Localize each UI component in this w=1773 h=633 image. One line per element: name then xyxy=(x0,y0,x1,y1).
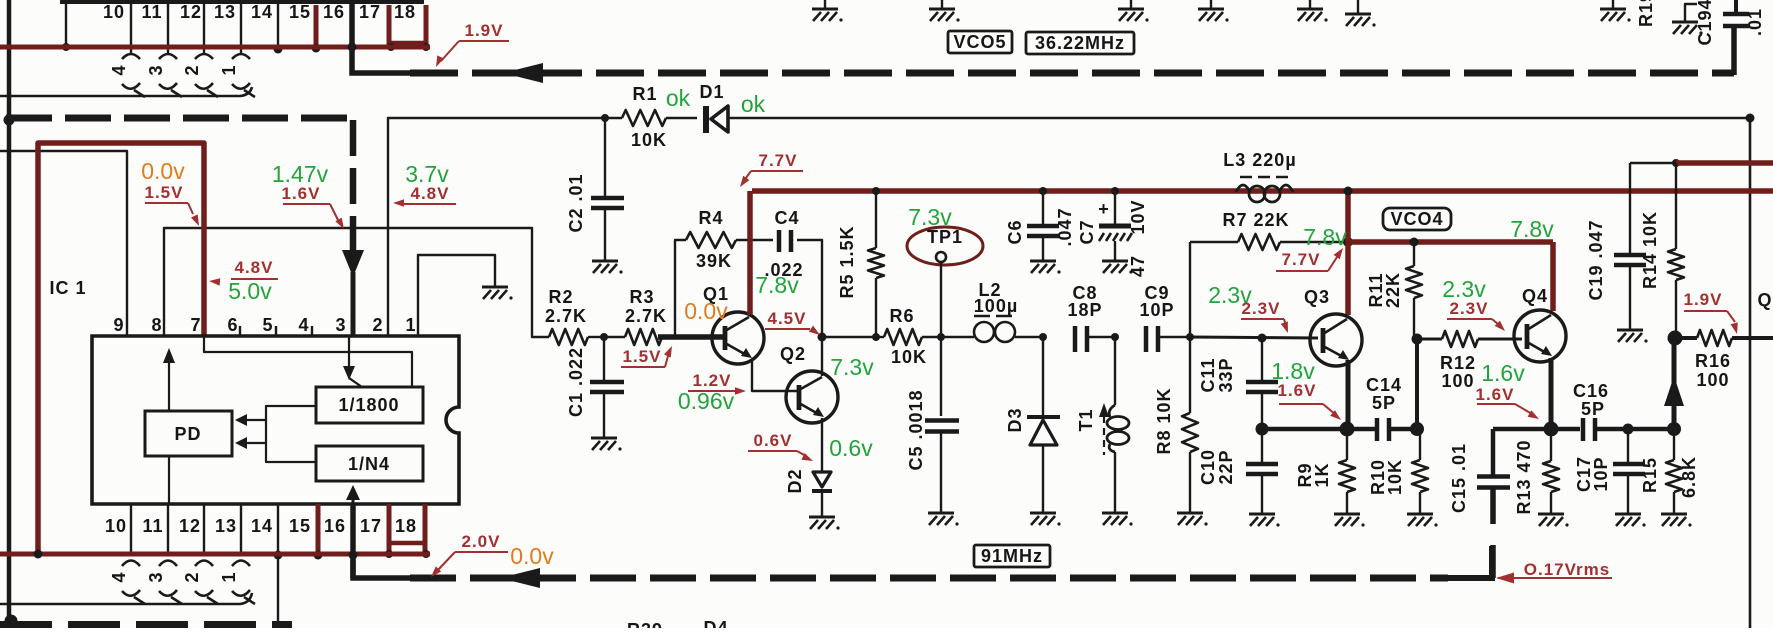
node Q3 emitter junction xyxy=(1340,422,1355,437)
node TP1 junction xyxy=(937,333,945,341)
svg-text:6.8K: 6.8K xyxy=(1679,456,1699,498)
svg-text:R12: R12 xyxy=(1440,353,1476,373)
svg-text:47: 47 xyxy=(1128,255,1148,277)
ground R13 xyxy=(1538,513,1564,516)
capacitor C11 xyxy=(1261,338,1263,381)
svg-text:1/N4: 1/N4 xyxy=(348,454,390,474)
svg-text:4.5V: 4.5V xyxy=(768,309,807,328)
svg-text:14: 14 xyxy=(251,516,273,536)
svg-text:Q4: Q4 xyxy=(1522,286,1548,306)
wire Q2 emitter xyxy=(821,418,823,472)
svg-text:R15: R15 xyxy=(1640,457,1660,493)
resistor R2 xyxy=(549,329,588,345)
bus riser pin3 with arrow xyxy=(350,120,357,250)
svg-text:VCO4: VCO4 xyxy=(1390,209,1443,229)
wire R15 node to R16 arrow xyxy=(1672,338,1677,429)
svg-text:5P: 5P xyxy=(1581,399,1605,419)
capacitor C2 xyxy=(604,118,606,197)
wire to Q3 base xyxy=(1190,337,1318,338)
node rail2 junction xyxy=(1343,237,1353,247)
node R12 junction xyxy=(1412,334,1423,345)
svg-text:7.7V: 7.7V xyxy=(759,151,798,170)
wire top pin17 highlighted xyxy=(387,5,392,47)
svg-text:1: 1 xyxy=(405,315,416,335)
transistor Q4 xyxy=(1514,310,1566,362)
svg-text:8: 8 xyxy=(151,315,162,335)
capacitor C1 xyxy=(603,337,605,381)
svg-text:11: 11 xyxy=(141,2,162,22)
svg-text:R8 10K: R8 10K xyxy=(1154,387,1174,454)
svg-text:39K: 39K xyxy=(696,251,732,271)
ground C10 xyxy=(1249,513,1275,516)
box PD xyxy=(145,411,232,456)
svg-text:10K: 10K xyxy=(1385,459,1405,495)
bus dashed bottom edge xyxy=(0,621,292,629)
capacitor C17 xyxy=(1627,429,1629,463)
net highlighted Q3 collector xyxy=(1345,191,1351,315)
resistor R9 xyxy=(1346,429,1348,460)
resistor R11 xyxy=(1413,242,1415,266)
wire PD up arrow xyxy=(168,352,170,411)
wire top pin18 highlighted xyxy=(424,5,429,47)
svg-text:R3: R3 xyxy=(629,287,654,307)
svg-text:R4: R4 xyxy=(698,208,723,228)
svg-text:7.3v: 7.3v xyxy=(908,204,952,230)
svg-text:PD: PD xyxy=(174,424,201,444)
svg-text:IC 1: IC 1 xyxy=(49,278,86,298)
svg-text:5.0v: 5.0v xyxy=(228,278,272,304)
svg-text:1.6V: 1.6V xyxy=(1278,381,1317,400)
wire bottom pin12 xyxy=(203,504,205,554)
wire bottom pin13 xyxy=(240,504,242,554)
connector hooks bottom xyxy=(122,561,140,567)
svg-text:0.6V: 0.6V xyxy=(754,431,793,450)
svg-text:7.8v: 7.8v xyxy=(755,272,799,298)
wire connector line bottom xyxy=(0,593,252,604)
svg-text:14: 14 xyxy=(251,2,273,22)
wire 1-1800 to PD xyxy=(266,406,316,462)
svg-text:0.0v: 0.0v xyxy=(684,298,728,324)
wire bottom pin17 highlighted xyxy=(387,504,392,554)
svg-text:R19: R19 xyxy=(1636,0,1656,27)
svg-text:13: 13 xyxy=(214,2,236,22)
diode D1 xyxy=(703,106,709,133)
svg-text:R1: R1 xyxy=(632,84,657,104)
capacitor C5 xyxy=(940,337,942,416)
svg-text:91MHz: 91MHz xyxy=(981,546,1043,566)
capacitor C9 xyxy=(1144,326,1149,352)
svg-text:R2: R2 xyxy=(548,287,573,307)
label box VCO5 xyxy=(948,31,1012,53)
capacitor C6 xyxy=(1042,191,1044,224)
svg-text:10K: 10K xyxy=(891,347,927,367)
wire bottom pin11 xyxy=(167,504,169,554)
net highlighted pin7 trace xyxy=(38,143,204,554)
wire pin3 internal arrow xyxy=(348,336,350,368)
ground top x825 xyxy=(824,0,826,8)
resistor R14 xyxy=(1675,163,1677,249)
resistor R16 xyxy=(1674,336,1697,340)
svg-text:Q2: Q2 xyxy=(780,344,806,364)
wire top pin15 highlighted xyxy=(314,5,319,47)
svg-text:C1 .022: C1 .022 xyxy=(566,347,586,417)
svg-text:1/1800: 1/1800 xyxy=(338,395,399,415)
svg-text:7.3v: 7.3v xyxy=(830,354,874,380)
wire Q4 emitter xyxy=(1549,358,1554,425)
capacitor C15 xyxy=(1477,474,1510,479)
ground top x1358 xyxy=(1357,0,1359,13)
svg-text:3: 3 xyxy=(335,315,346,335)
capacitor C14 xyxy=(1375,418,1380,441)
svg-text:16: 16 xyxy=(323,2,345,22)
svg-text:7.8v: 7.8v xyxy=(1510,216,1554,242)
svg-text:3: 3 xyxy=(146,571,166,582)
svg-text:17: 17 xyxy=(359,2,381,22)
svg-text:4: 4 xyxy=(109,571,129,582)
node D3 junction xyxy=(1039,333,1047,341)
svg-text:17: 17 xyxy=(360,516,382,536)
ground D2 xyxy=(809,516,835,519)
svg-text:1.6V: 1.6V xyxy=(282,184,321,203)
resistor R1 xyxy=(605,117,622,119)
svg-text:C4: C4 xyxy=(774,208,799,228)
capacitor C194 xyxy=(1734,0,1738,13)
ground R8 xyxy=(1177,512,1203,515)
svg-text:R7 22K: R7 22K xyxy=(1222,210,1289,230)
svg-text:4: 4 xyxy=(298,315,309,335)
wire Q1 base thick xyxy=(658,334,723,340)
ground C19 xyxy=(1617,329,1643,332)
svg-text:1K: 1K xyxy=(1312,462,1332,487)
inductor T1 xyxy=(1114,337,1116,405)
svg-text:5: 5 xyxy=(262,315,273,335)
svg-text:C19 .047: C19 .047 xyxy=(1586,219,1606,300)
testpoint TP1 xyxy=(907,227,983,265)
capacitor C7 electrolytic xyxy=(1114,191,1116,225)
transistor Q1 xyxy=(712,312,764,364)
svg-text:4: 4 xyxy=(109,64,129,75)
svg-text:2: 2 xyxy=(182,571,202,582)
svg-text:10V: 10V xyxy=(1128,199,1148,234)
svg-text:L3 220µ: L3 220µ xyxy=(1223,150,1296,170)
capacitor C10 xyxy=(1261,429,1263,463)
wire R4 branch xyxy=(675,240,686,337)
box 1/1800 xyxy=(316,387,423,423)
node C2 junction xyxy=(601,114,609,122)
bus arrow top xyxy=(503,63,543,83)
wire pin16 to bus corner xyxy=(352,0,412,73)
ground R15 xyxy=(1661,513,1687,516)
node C7 junction xyxy=(1111,187,1119,195)
wire top pin stub x66 xyxy=(65,0,67,47)
svg-text:0.6v: 0.6v xyxy=(829,435,873,461)
svg-text:0.0v: 0.0v xyxy=(510,543,554,569)
node R2 R3 junction xyxy=(600,333,608,341)
node R15 junction xyxy=(1667,422,1681,436)
svg-text:R6: R6 xyxy=(889,306,914,326)
node Q4 emitter junction xyxy=(1544,422,1559,437)
svg-text:D2: D2 xyxy=(785,468,805,493)
resistor R13 xyxy=(1550,429,1552,461)
ground C5 xyxy=(928,512,954,515)
svg-text:1.9V: 1.9V xyxy=(465,21,504,40)
svg-text:C11: C11 xyxy=(1198,357,1218,392)
svg-text:10P: 10P xyxy=(1139,300,1174,320)
wire R7 riser xyxy=(1189,242,1191,337)
svg-text:.01: .01 xyxy=(1745,8,1765,36)
svg-text:R14 10K: R14 10K xyxy=(1640,211,1660,289)
svg-text:2: 2 xyxy=(182,64,202,75)
wire bottom pin18 highlighted xyxy=(423,504,428,554)
wire bottom pin10 xyxy=(130,504,132,554)
svg-text:0.0v: 0.0v xyxy=(141,158,185,184)
wire bottom pin15 highlighted xyxy=(316,504,321,554)
svg-text:C15 .01: C15 .01 xyxy=(1449,443,1469,513)
svg-text:0.96v: 0.96v xyxy=(678,388,735,414)
svg-text:5P: 5P xyxy=(1372,393,1396,413)
bus dashed top y73 xyxy=(410,70,1734,77)
svg-text:.047: .047 xyxy=(1055,207,1075,246)
wire Q1 emitter to Q2 base xyxy=(752,360,797,391)
svg-text:10P: 10P xyxy=(1591,456,1611,491)
svg-text:18P: 18P xyxy=(1067,300,1102,320)
node R8 junction xyxy=(1186,333,1194,341)
svg-text:1: 1 xyxy=(219,64,239,75)
svg-text:13: 13 xyxy=(215,516,237,536)
svg-text:C2 .01: C2 .01 xyxy=(566,173,586,232)
ground C17 xyxy=(1615,513,1641,516)
svg-text:2.7K: 2.7K xyxy=(625,306,667,326)
connector hooks top pins xyxy=(122,54,140,59)
wire top pin13 xyxy=(240,4,242,53)
svg-text:1.9V: 1.9V xyxy=(1684,290,1723,309)
pin stub 5 xyxy=(275,326,277,336)
svg-text:9: 9 xyxy=(113,315,124,335)
node C6 junction xyxy=(1039,187,1047,195)
svg-text:10: 10 xyxy=(103,2,125,22)
ground C6 xyxy=(1030,260,1056,263)
capacitor C16 xyxy=(1581,418,1586,441)
diode D2 xyxy=(813,472,831,487)
node C11 junction xyxy=(1258,334,1267,343)
wire emitter line left xyxy=(1262,427,1375,432)
svg-text:D4: D4 xyxy=(703,618,728,628)
svg-text:2.0V: 2.0V xyxy=(462,532,501,551)
wire left edge vertical xyxy=(7,0,12,620)
wire mid line xyxy=(822,336,876,338)
svg-text:100: 100 xyxy=(1696,370,1729,390)
svg-text:C5 .0018: C5 .0018 xyxy=(906,389,926,470)
ground pin1 xyxy=(482,286,508,289)
ground top x1685 elbow xyxy=(1685,4,1697,21)
wire bottom pin14 xyxy=(277,504,279,628)
svg-text:C7: C7 xyxy=(1077,219,1097,244)
svg-text:12: 12 xyxy=(179,516,201,536)
resistor R3 xyxy=(604,336,625,338)
wire pin1 to ground xyxy=(418,255,495,336)
svg-text:12: 12 xyxy=(180,2,202,22)
pin stub 6 xyxy=(239,326,241,336)
wire top pin12 xyxy=(203,4,205,53)
svg-text:1: 1 xyxy=(219,571,239,582)
svg-text:R16: R16 xyxy=(1695,351,1731,371)
net highlighted y163 xyxy=(1676,160,1773,166)
bus arrow bottom xyxy=(500,568,540,588)
net highlighted Q4 collector xyxy=(1550,242,1556,311)
svg-text:15: 15 xyxy=(289,2,311,22)
svg-text:2.3V: 2.3V xyxy=(1450,299,1489,318)
wire C14 to R12 node xyxy=(1389,427,1417,432)
inductor L3 xyxy=(1236,185,1250,192)
svg-text:C10: C10 xyxy=(1198,449,1218,485)
bus right riser to C194 xyxy=(1731,27,1737,75)
net highlighted Q1 collector xyxy=(747,191,753,315)
wire top pin10 xyxy=(130,4,132,53)
ground R10 xyxy=(1407,513,1433,516)
node right vertical junction xyxy=(1746,114,1755,123)
wire pin16 bottom thick xyxy=(350,504,356,578)
svg-text:VCO5: VCO5 xyxy=(953,32,1006,52)
net highlighted bus bottom y554 xyxy=(0,552,430,557)
svg-text:22K: 22K xyxy=(1383,272,1403,308)
diode D3 xyxy=(1042,337,1044,416)
svg-text:Q3: Q3 xyxy=(1304,287,1330,307)
bus dashed left y118 xyxy=(6,115,352,122)
resistor R15 xyxy=(1673,429,1675,460)
svg-text:18: 18 xyxy=(394,2,416,22)
svg-text:O.17Vrms: O.17Vrms xyxy=(1524,560,1610,579)
svg-text:2.7K: 2.7K xyxy=(545,306,587,326)
wire pin9 from left xyxy=(0,151,127,336)
ground C2 xyxy=(592,260,618,263)
node Q2 collector junction xyxy=(818,333,827,342)
svg-text:R39: R39 xyxy=(627,620,663,628)
svg-text:22P: 22P xyxy=(1216,449,1236,484)
ground T1 xyxy=(1102,512,1128,515)
resistor R4 xyxy=(686,232,736,248)
ground top x942 xyxy=(941,0,943,8)
svg-text:18: 18 xyxy=(395,516,417,536)
svg-text:7: 7 xyxy=(190,315,201,335)
svg-text:ok: ok xyxy=(741,91,766,117)
svg-text:TP1: TP1 xyxy=(927,227,963,247)
wire y163 xyxy=(1630,162,1676,164)
resistor R10 xyxy=(1419,429,1421,460)
svg-text:6: 6 xyxy=(227,315,238,335)
capacitor C19 xyxy=(1629,163,1631,254)
wire C15 riser xyxy=(1491,429,1496,476)
svg-text:3: 3 xyxy=(146,64,166,75)
svg-text:ok: ok xyxy=(666,85,691,111)
svg-text:4.8V: 4.8V xyxy=(411,184,450,203)
IC IC1 body xyxy=(92,336,459,504)
net highlighted rail2 xyxy=(1348,239,1553,245)
wire right vertical x1750 xyxy=(1749,118,1752,628)
resistor R5 xyxy=(875,191,877,248)
svg-text:C6: C6 xyxy=(1005,219,1025,244)
svg-text:7.8v: 7.8v xyxy=(1303,224,1347,250)
node C10 junction xyxy=(1256,423,1269,436)
ground top x1131 xyxy=(1130,0,1132,8)
capacitor C4 xyxy=(777,230,782,252)
svg-text:1.6V: 1.6V xyxy=(1476,385,1515,404)
svg-text:11: 11 xyxy=(142,516,163,536)
wire pin7 internal xyxy=(204,336,412,387)
pin stub 4 xyxy=(311,326,313,336)
label box VCO4 xyxy=(1383,208,1451,230)
IC above bottom edge xyxy=(60,0,424,4)
svg-text:16: 16 xyxy=(324,516,346,536)
ground top x1613 xyxy=(1612,0,1614,8)
bus dashed bottom y578 xyxy=(353,560,412,578)
svg-text:36.22MHz: 36.22MHz xyxy=(1035,33,1125,53)
svg-text:C14: C14 xyxy=(1366,375,1402,395)
svg-text:R13 470: R13 470 xyxy=(1514,439,1534,514)
label box 36.22MHz xyxy=(1026,32,1134,54)
wire pin2 riser xyxy=(388,118,605,336)
resistor R6 xyxy=(884,329,922,345)
wire top pin11 xyxy=(167,4,169,53)
svg-text:1.5V: 1.5V xyxy=(145,183,184,202)
svg-text:D3: D3 xyxy=(1005,407,1025,432)
ground C7 xyxy=(1102,260,1128,263)
node T1 junction xyxy=(1111,333,1119,341)
ground C1 xyxy=(591,437,617,440)
svg-text:+: + xyxy=(1098,199,1110,219)
ground R9 xyxy=(1334,513,1360,516)
node R16 junction xyxy=(1668,331,1683,346)
wire pin8 to R2 xyxy=(164,228,549,337)
wire Q3 emitter xyxy=(1346,360,1351,425)
wire PD down internal xyxy=(168,456,170,504)
svg-text:10K: 10K xyxy=(631,130,667,150)
svg-text:1.5V: 1.5V xyxy=(623,347,662,366)
svg-text:C16: C16 xyxy=(1573,381,1609,401)
svg-text:4.8V: 4.8V xyxy=(235,258,274,277)
box 1/N4 xyxy=(316,446,423,481)
resistor R8 xyxy=(1189,337,1191,413)
ground D3 xyxy=(1030,512,1056,515)
transistor Q3 xyxy=(1310,314,1362,366)
resistor R12 xyxy=(1417,338,1442,341)
ground top x1211 xyxy=(1210,0,1212,8)
svg-text:33P: 33P xyxy=(1216,357,1236,392)
svg-text:R5 1.5K: R5 1.5K xyxy=(837,225,857,298)
svg-text:1.6v: 1.6v xyxy=(1481,360,1525,386)
svg-text:2: 2 xyxy=(372,315,383,335)
wire 1N4 to pin16 arrow xyxy=(346,485,360,500)
label box 91MHz xyxy=(974,545,1050,567)
ground top x1310 xyxy=(1309,0,1311,8)
svg-text:D1: D1 xyxy=(699,82,724,102)
capacitor C8 xyxy=(1073,326,1078,352)
wire top pin14 xyxy=(277,4,279,49)
wire connector line top xyxy=(0,87,252,96)
wire C4 to collector node xyxy=(797,240,822,376)
node C17 junction xyxy=(1623,424,1634,435)
svg-text:10: 10 xyxy=(105,516,127,536)
transistor Q2 xyxy=(786,371,838,423)
svg-text:100: 100 xyxy=(1441,371,1474,391)
svg-text:2.3V: 2.3V xyxy=(1242,299,1281,318)
svg-text:7.7V: 7.7V xyxy=(1282,250,1321,269)
inductor L2 xyxy=(941,336,974,338)
net highlighted rail y191 xyxy=(752,188,1773,194)
wire emitter line right xyxy=(1493,427,1580,432)
svg-text:15: 15 xyxy=(289,516,311,536)
net highlighted bus top y47 xyxy=(0,45,430,50)
svg-text:100µ: 100µ xyxy=(974,296,1018,316)
